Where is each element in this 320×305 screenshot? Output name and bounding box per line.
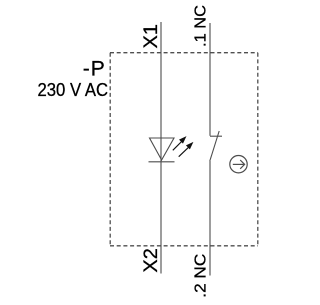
svg-text:230 V AC: 230 V AC bbox=[38, 80, 109, 100]
svg-text:X1: X1 bbox=[141, 24, 162, 48]
svg-text:.2 NC: .2 NC bbox=[193, 254, 210, 298]
svg-text:.1 NC: .1 NC bbox=[193, 5, 210, 47]
svg-text:X2: X2 bbox=[141, 248, 162, 273]
svg-text:-P: -P bbox=[83, 58, 106, 81]
